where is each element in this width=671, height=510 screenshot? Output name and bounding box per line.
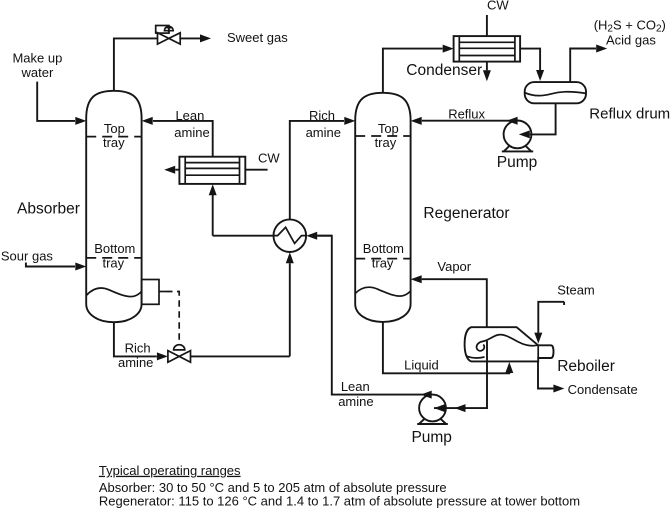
svg-text:Condensate: Condensate [568, 382, 638, 397]
reboiler E-4 kettle [465, 327, 554, 361]
cooler CW inlet line [245, 169, 267, 171]
exchanger bottom inlet line [289, 263, 291, 356]
svg-text:amine: amine [338, 394, 373, 409]
svg-text:Absorber: Absorber [17, 200, 80, 217]
svg-text:Bottom: Bottom [94, 241, 135, 256]
regenerator bottom tray dashed line [355, 258, 410, 260]
condenser outlet line to reflux drum [520, 49, 540, 70]
absorber liquid level wavy line [86, 288, 141, 297]
absorber bottoms line to valve [114, 322, 157, 356]
cooler bottom inlet line [212, 195, 214, 236]
sweet gas outlet line [180, 37, 200, 39]
reflux drum D-1 [525, 82, 586, 103]
svg-text:Lean: Lean [175, 108, 204, 123]
rich amine arrow into regenerator [344, 117, 355, 125]
sweet gas valve V-1 [156, 26, 181, 45]
steam line [538, 302, 564, 333]
absorber level nozzle box [142, 280, 159, 305]
svg-text:Liquid: Liquid [404, 357, 439, 372]
condenser CW inlet line [486, 15, 488, 36]
make up water arrow [75, 117, 86, 125]
svg-text:Regenerator: Regenerator [423, 205, 509, 222]
svg-text:Rich: Rich [309, 108, 335, 123]
svg-text:tray: tray [372, 256, 394, 271]
rich amine valve V-2 [168, 345, 191, 362]
liquid line from regenerator to reboiler [383, 322, 509, 374]
regenerator overhead line to condenser [383, 49, 443, 93]
sour gas arrow [75, 263, 86, 271]
svg-text:Vapor: Vapor [437, 259, 471, 274]
svg-text:tray: tray [375, 135, 397, 150]
condenser bottom vent arrow [486, 62, 488, 71]
lean amine cooler E-2 [179, 157, 245, 184]
absorber column T-1 [86, 91, 141, 322]
regenerator liquid level wavy line [355, 287, 410, 296]
acid gas line [570, 49, 596, 83]
svg-text:Top: Top [378, 121, 399, 136]
reflux line to regenerator [422, 120, 518, 122]
lean amine arrow into absorber [142, 117, 153, 125]
regenerator top tray dashed line [355, 135, 410, 137]
svg-text:amine: amine [174, 125, 209, 140]
svg-text:CW: CW [258, 150, 280, 165]
instrument dashed line from level nozzle to valve [159, 291, 166, 293]
reflux drum outlet to pump [530, 103, 556, 134]
reboiler draw line to lean pump [434, 341, 487, 408]
svg-text:amine: amine [118, 355, 153, 370]
vapor line from reboiler to regenerator [422, 279, 487, 327]
svg-text:Typical operating ranges: Typical operating ranges [99, 463, 241, 478]
svg-text:Bottom: Bottom [363, 241, 404, 256]
arrow into condenser [443, 45, 454, 53]
condenser E-3 [454, 36, 520, 62]
svg-text:Absorber: 30 to 50 °C and 5 to: Absorber: 30 to 50 °C and 5 to 205 atm o… [99, 480, 447, 495]
lean amine pump P-2 [417, 395, 448, 424]
condensate line [538, 362, 553, 389]
svg-text:Acid gas: Acid gas [606, 33, 656, 48]
arrow into rich amine valve [157, 352, 168, 360]
reflux pump P-1 [502, 120, 533, 151]
svg-text:Make up: Make up [12, 51, 62, 66]
sweet gas overhead line [114, 38, 157, 91]
svg-text:Pump: Pump [497, 154, 538, 171]
make up water line [37, 82, 75, 121]
svg-text:Top: Top [104, 121, 125, 136]
lean amine pump discharge line [317, 236, 432, 395]
svg-text:tray: tray [102, 256, 124, 271]
cross heat exchanger E-1 [274, 219, 307, 252]
cooler CW outlet line [175, 169, 179, 171]
exchanger right inlet line [317, 235, 332, 237]
svg-text:Rich: Rich [125, 340, 151, 355]
absorber bottom tray dashed line [86, 257, 141, 259]
svg-text:Sour gas: Sour gas [1, 249, 54, 264]
sweet gas arrow [200, 34, 211, 42]
svg-text:Reboiler: Reboiler [557, 358, 615, 375]
svg-text:Sweet gas: Sweet gas [227, 30, 288, 45]
exchanger left outlet line [213, 235, 274, 237]
svg-text:Pump: Pump [411, 429, 452, 446]
svg-text:Condenser: Condenser [406, 62, 482, 79]
svg-text:water: water [21, 65, 54, 80]
svg-text:Steam: Steam [557, 282, 595, 297]
sour gas line [26, 263, 75, 267]
svg-text:CW: CW [487, 0, 509, 13]
exchanger top outlet line (rich amine to regenerator) [290, 121, 344, 219]
valve outlet line to exchanger riser [191, 355, 290, 357]
svg-text:tray: tray [103, 135, 125, 150]
svg-text:Lean: Lean [341, 379, 370, 394]
svg-text:Regenerator: 115 to 126 °C and: Regenerator: 115 to 126 °C and 1.4 to 1.… [99, 494, 580, 509]
svg-text:Reflux: Reflux [448, 107, 485, 122]
absorber top tray dashed line [86, 136, 141, 138]
lean amine line into absorber [153, 121, 213, 157]
regenerator column T-2 [355, 93, 410, 322]
svg-text:amine: amine [306, 125, 341, 140]
svg-text:Reflux drum: Reflux drum [589, 105, 670, 122]
